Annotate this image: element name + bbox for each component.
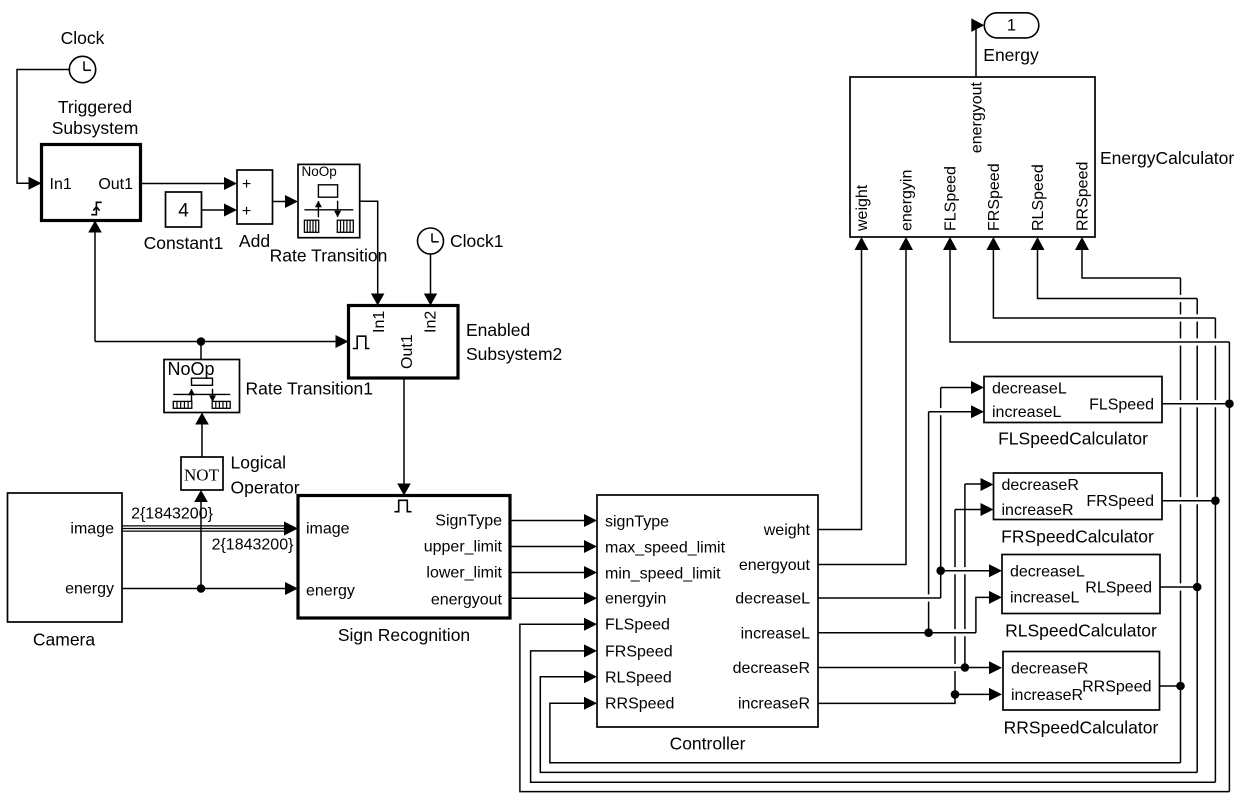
- sum block Add: [237, 170, 273, 224]
- wire image bus from Camera to Sign Recognition: [122, 525, 286, 527]
- svg-text:Rate Transition: Rate Transition: [270, 246, 388, 266]
- svg-text:RRSpeed: RRSpeed: [1075, 162, 1092, 231]
- svg-text:FRSpeedCalculator: FRSpeedCalculator: [1001, 527, 1154, 547]
- junction FLSpeed: [1225, 399, 1234, 408]
- svg-text:max_speed_limit: max_speed_limit: [605, 540, 726, 557]
- svg-text:FLSpeedCalculator: FLSpeedCalculator: [998, 429, 1148, 449]
- enable symbol of Enabled Subsystem2: [353, 336, 370, 348]
- svg-text:Add: Add: [239, 231, 270, 251]
- svg-text:RRSpeed: RRSpeed: [1082, 679, 1151, 696]
- svg-text:increaseL: increaseL: [1010, 590, 1079, 607]
- wire decreaseR net: [818, 667, 990, 669]
- svg-text:lower_limit: lower_limit: [426, 565, 502, 582]
- logic block Logical Operator NOT: [181, 457, 223, 490]
- svg-text:SignType: SignType: [435, 513, 502, 530]
- wire Logical Operator to Rate Transition1: [201, 424, 203, 457]
- svg-text:In1: In1: [371, 311, 388, 333]
- wire lower_limit to min_speed_limit: [510, 572, 585, 574]
- rate transition block Rate Transition1: [164, 360, 240, 413]
- svg-text:energyout: energyout: [431, 592, 503, 609]
- svg-text:increaseR: increaseR: [738, 696, 810, 713]
- svg-text:decreaseR: decreaseR: [1011, 661, 1088, 678]
- subsystem FRSpeedCalculator: [994, 473, 1163, 520]
- wire trigger net from Rate Transition1 to Triggered Subsystem and Enabled Subsystem2: [94, 233, 96, 342]
- subsystem EnergyCalculator: [850, 77, 1095, 237]
- wire SignType to signType: [510, 520, 585, 522]
- clock source Clock: [69, 56, 95, 82]
- svg-text:In1: In1: [50, 176, 72, 193]
- svg-text:EnergyCalculator: EnergyCalculator: [1100, 148, 1234, 168]
- subsystem RLSpeedCalculator: [1002, 555, 1160, 614]
- svg-text:Logical: Logical: [231, 453, 286, 473]
- subsystem Enabled Subsystem2: [349, 306, 459, 379]
- svg-text:Subsystem: Subsystem: [52, 118, 139, 138]
- svg-text:+: +: [242, 176, 251, 193]
- wire Enabled Subsystem2 Out1 to Sign Recognition trigger: [403, 378, 405, 484]
- subsystem Sign Recognition: [298, 496, 510, 619]
- svg-text:energy: energy: [306, 583, 355, 600]
- wire energyout to EnergyCalculator energyin: [818, 248, 906, 565]
- svg-text:energyout: energyout: [969, 81, 986, 153]
- svg-text:RLSpeedCalculator: RLSpeedCalculator: [1005, 621, 1157, 641]
- svg-text:energyout: energyout: [739, 557, 811, 574]
- svg-text:image: image: [306, 521, 350, 538]
- svg-text:FRSpeed: FRSpeed: [605, 644, 673, 661]
- svg-text:NoOp: NoOp: [168, 359, 215, 379]
- trigger symbol of Triggered Subsystem: [91, 202, 102, 214]
- wire upper_limit to max_speed_limit: [510, 546, 585, 548]
- svg-text:energy: energy: [65, 581, 114, 598]
- svg-text:FRSpeed: FRSpeed: [1086, 493, 1154, 510]
- wire FLSpeed net: [1162, 403, 1229, 405]
- wire Constant1 to Add: [202, 209, 225, 211]
- wire weight to EnergyCalculator: [818, 248, 862, 530]
- wire RLSpeed net: [1160, 586, 1197, 588]
- svg-text:1: 1: [1007, 17, 1016, 35]
- svg-text:RRSpeed: RRSpeed: [605, 696, 674, 713]
- svg-text:4: 4: [178, 201, 189, 222]
- svg-text:Enabled: Enabled: [466, 320, 530, 340]
- svg-text:increaseR: increaseR: [1002, 502, 1074, 519]
- svg-text:Rate Transition1: Rate Transition1: [246, 379, 373, 399]
- svg-text:Triggered: Triggered: [58, 97, 132, 117]
- wire energy from Camera to Sign Recognition: [122, 588, 286, 590]
- subsystem RRSpeedCalculator: [1003, 652, 1160, 711]
- svg-text:Clock: Clock: [61, 28, 105, 48]
- svg-text:decreaseL: decreaseL: [992, 381, 1067, 398]
- svg-text:Clock1: Clock1: [450, 231, 504, 251]
- junction on trigger net: [197, 337, 206, 346]
- junction on energy wire: [197, 584, 206, 593]
- svg-text:2{1843200}: 2{1843200}: [212, 537, 295, 554]
- svg-text:Subsystem2: Subsystem2: [466, 344, 562, 364]
- wire Add to Rate Transition: [273, 201, 286, 203]
- svg-text:Out1: Out1: [98, 176, 133, 193]
- svg-text:Camera: Camera: [33, 630, 96, 650]
- svg-text:upper_limit: upper_limit: [424, 539, 503, 556]
- subsystem Camera: [8, 493, 123, 622]
- wire decreaseL net: [818, 597, 941, 599]
- svg-text:Operator: Operator: [231, 478, 300, 498]
- svg-text:FLSpeed: FLSpeed: [1089, 397, 1154, 414]
- wire increaseL net: [818, 632, 976, 634]
- subsystem FLSpeedCalculator: [984, 377, 1162, 423]
- svg-text:min_speed_limit: min_speed_limit: [605, 566, 721, 583]
- clock source Clock1: [418, 228, 444, 254]
- svg-text:RLSpeed: RLSpeed: [1085, 580, 1152, 597]
- svg-text:NOT: NOT: [184, 466, 220, 485]
- rate transition block Rate Transition: [298, 164, 360, 237]
- svg-text:RRSpeedCalculator: RRSpeedCalculator: [1004, 718, 1159, 738]
- junction RLSpeed: [1193, 583, 1202, 592]
- svg-text:In2: In2: [423, 311, 440, 333]
- svg-text:weight: weight: [763, 522, 811, 539]
- svg-text:Energy: Energy: [983, 45, 1039, 65]
- wire energyout to energyin: [510, 597, 585, 599]
- junction decreaseR to FRSpeedCalculator: [961, 663, 970, 672]
- svg-text:FLSpeed: FLSpeed: [943, 166, 960, 231]
- wire Out1 to Add: [141, 183, 225, 185]
- subsystem Triggered Subsystem: [42, 145, 141, 221]
- svg-text:NoOp: NoOp: [302, 164, 337, 179]
- wire increaseR net: [818, 694, 955, 703]
- svg-text:signType: signType: [605, 514, 669, 531]
- svg-text:Sign Recognition: Sign Recognition: [338, 625, 470, 645]
- svg-text:Constant1: Constant1: [144, 233, 224, 253]
- svg-text:Out1: Out1: [399, 334, 416, 369]
- junction decreaseL to RLSpeedCalculator: [936, 566, 945, 575]
- svg-text:energyin: energyin: [605, 591, 666, 608]
- wire Rate Transition to Enabled Subsystem2 In1: [360, 201, 378, 294]
- wire Clock to In1: [17, 70, 69, 184]
- junction increaseL to FLSpeedCalculator: [924, 628, 933, 637]
- svg-text:decreaseL: decreaseL: [1010, 564, 1085, 581]
- svg-text:energyin: energyin: [899, 170, 916, 231]
- trigger symbol of Sign Recognition: [395, 500, 412, 511]
- output port Energy: [984, 13, 1039, 38]
- junction RRSpeed: [1176, 682, 1185, 691]
- svg-text:decreaseR: decreaseR: [733, 660, 810, 677]
- svg-text:Controller: Controller: [670, 734, 746, 754]
- svg-text:FRSpeed: FRSpeed: [986, 163, 1003, 231]
- junction increaseR to FRSpeedCalculator: [951, 690, 960, 699]
- svg-text:decreaseL: decreaseL: [735, 591, 810, 608]
- wire RRSpeed net: [1160, 685, 1181, 687]
- junction FRSpeed: [1211, 496, 1220, 505]
- svg-text:increaseL: increaseL: [741, 626, 810, 643]
- svg-text:2{1843200}: 2{1843200}: [131, 506, 214, 523]
- svg-text:+: +: [242, 203, 251, 220]
- svg-text:decreaseR: decreaseR: [1002, 477, 1079, 494]
- svg-text:image: image: [70, 521, 114, 538]
- wire FRSpeed net: [1162, 500, 1215, 502]
- svg-text:weight: weight: [854, 184, 871, 232]
- svg-text:RLSpeed: RLSpeed: [1030, 164, 1047, 231]
- constant block Constant1: [166, 192, 202, 227]
- svg-text:increaseR: increaseR: [1011, 687, 1083, 704]
- wire energy branch to Logical Operator: [200, 502, 202, 589]
- svg-text:FLSpeed: FLSpeed: [605, 617, 670, 634]
- subsystem Controller: [597, 495, 818, 727]
- wire Clock1 to Enabled Subsystem2 In2: [430, 254, 432, 294]
- svg-text:increaseL: increaseL: [992, 404, 1061, 421]
- wire EnergyCalculator energyout to Energy port: [974, 25, 976, 77]
- svg-text:RLSpeed: RLSpeed: [605, 670, 672, 687]
